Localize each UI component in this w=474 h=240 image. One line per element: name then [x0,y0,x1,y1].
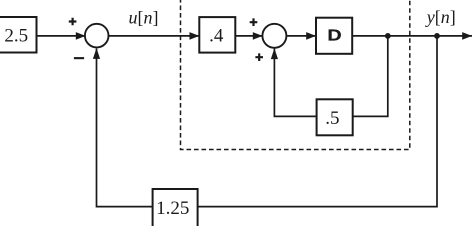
svg-text:1.25: 1.25 [156,198,189,219]
plus sign (left input of adder A2) [250,18,258,26]
plus sign (top input of adder A1) [69,18,77,26]
gain block K1 (2.5), clipped at left edge [0,17,37,53]
arrowhead into gain .4 [190,32,200,40]
wire: delay D to output y[n] [352,35,472,37]
svg-text:2.5: 2.5 [4,26,28,47]
arrowhead into bottom of adder A1 [93,48,100,59]
gain block K2 (.4) [199,17,235,53]
plus sign (bottom input of adder A2) [255,53,263,61]
wire: .5 output left and up to adder A2 [274,49,316,117]
wire: J2 down to 1.25 feedback row [198,36,437,207]
arrowhead into bottom of adder A2 [271,48,278,59]
wire: 2.5 output to adder A1 [37,35,88,37]
wire: 1.25 output left and up to adder A1 [97,49,153,207]
adder A2 (summing junction) [262,24,286,48]
dashed subsystem boundary box [181,0,410,150]
svg-text:.4: .4 [209,26,224,47]
wire: J1 down to .5 feedback row [353,36,388,117]
svg-text:y[n]: y[n] [425,7,456,27]
adder A1 (summing junction) [85,24,109,48]
svg-text:D: D [327,27,341,44]
junction node J1 (tap to .5 feedback) [385,33,391,39]
arrowhead into adder A2 [253,32,263,40]
delay block D [316,18,352,54]
arrowhead into adder A1 [76,32,86,40]
junction node J2 (tap to 1.25 feedback) [434,33,440,39]
svg-text:u[n]: u[n] [129,8,159,28]
minus sign (bottom input of adder A1) [74,57,84,59]
svg-text:.5: .5 [325,108,339,129]
wire: adder A1 to gain .4 [109,35,200,37]
gain block K3 (.5) [317,99,353,135]
gain block K4 (1.25), clipped at bottom edge [153,189,198,234]
wire: adder A2 to delay D [287,35,317,37]
wire: gain .4 to adder A2 [235,35,263,37]
arrowhead into delay D [306,32,316,40]
output arrowhead [462,32,472,40]
